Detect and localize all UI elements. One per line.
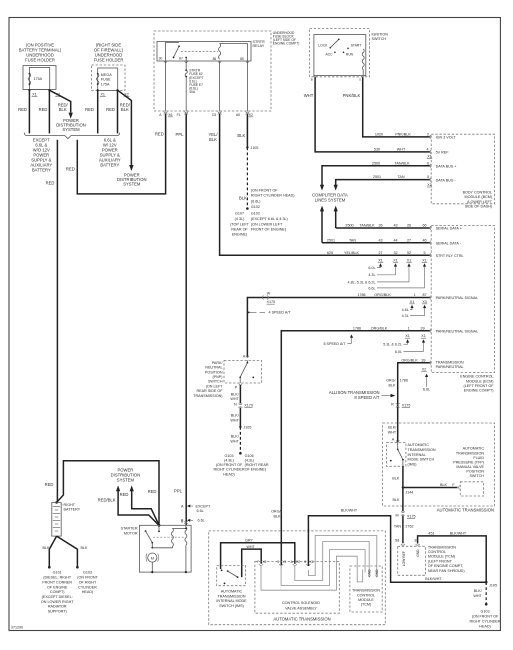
svg-text:BLK/: BLK/ xyxy=(231,414,240,418)
svg-text:BLK: BLK xyxy=(59,107,67,112)
svg-text:PNK/BLK: PNK/BLK xyxy=(343,93,361,98)
svg-text:S: S xyxy=(359,77,361,81)
svg-text:RIGHT: RIGHT xyxy=(64,503,76,507)
wire YEL/BLK fuse block C5 to ECM strt rly ctrl xyxy=(220,114,431,256)
svg-text:(4.8L): (4.8L) xyxy=(224,459,234,463)
svg-text:J105: J105 xyxy=(243,426,251,430)
BCM pin 2 IGN 3 VOLT xyxy=(375,133,456,140)
starter motor M xyxy=(146,553,159,573)
svg-text:BATTERY: BATTERY xyxy=(100,162,119,167)
engine leader 5.3L 6.2L xyxy=(383,339,409,347)
CSVA internal wire from 5 xyxy=(308,536,376,578)
svg-text:X175: X175 xyxy=(407,515,416,519)
engine leader 4.8L 5.3L 6.2L xyxy=(348,263,411,284)
svg-text:GND: GND xyxy=(375,569,379,577)
svg-text:BLK: BLK xyxy=(43,546,51,550)
svg-text:(EXCEPT DIESEL:: (EXCEPT DIESEL: xyxy=(42,595,73,599)
svg-text:G103: G103 xyxy=(83,571,92,575)
svg-text:PRESSURE (TFP): PRESSURE (TFP) xyxy=(453,461,484,465)
wire 625 YEL/BLK strt rly ctrl labels xyxy=(327,251,464,258)
svg-text:HEAD): HEAD) xyxy=(223,472,234,476)
svg-text:FUSE HOLDER: FUSE HOLDER xyxy=(94,58,124,63)
svg-text:TAN: TAN xyxy=(394,525,401,529)
svg-text:1: 1 xyxy=(414,293,416,297)
note 8 speed A/T xyxy=(323,334,353,346)
svg-text:46: 46 xyxy=(422,238,426,242)
svg-text:CONTROL: CONTROL xyxy=(357,593,375,597)
svg-text:(LEFT FRONT OF: (LEFT FRONT OF xyxy=(464,384,495,388)
CSVA internal wire from F xyxy=(261,556,363,590)
svg-text:ENGINE COMPT): ENGINE COMPT) xyxy=(464,389,494,393)
note B 6.6L xyxy=(181,519,205,523)
svg-text:PARK/NEUTRAL: PARK/NEUTRAL xyxy=(436,365,464,369)
svg-text:BLK/: BLK/ xyxy=(388,426,397,430)
svg-text:HEAD): HEAD) xyxy=(479,625,490,629)
svg-text:TRANSMISSION: TRANSMISSION xyxy=(217,594,245,598)
svg-text:BLK/WHT: BLK/WHT xyxy=(450,532,467,536)
svg-text:STRT RLY CTRL: STRT RLY CTRL xyxy=(436,254,464,258)
svg-text:(6.6L): (6.6L) xyxy=(251,200,261,204)
relay coil 86/85 xyxy=(213,44,248,62)
svg-text:44: 44 xyxy=(393,238,397,242)
wire RED starter to PDS xyxy=(120,485,159,525)
svg-text:RED: RED xyxy=(148,489,157,494)
transmission control module TCM box (center) xyxy=(350,566,382,612)
svg-text:RIGHT CYLINDER: RIGHT CYLINDER xyxy=(213,468,244,472)
svg-text:TRANSMISSION: TRANSMISSION xyxy=(408,448,436,452)
svg-text:39: 39 xyxy=(421,326,425,330)
svg-text:OF ENGINE: OF ENGINE xyxy=(47,585,68,589)
svg-text:M: M xyxy=(395,513,398,517)
svg-text:R: R xyxy=(391,402,394,406)
svg-text:B: B xyxy=(311,77,313,81)
wire BLK to TFP switch xyxy=(403,483,460,489)
svg-text:BLK/WHT: BLK/WHT xyxy=(425,577,442,581)
engine leader 6.6L (trans park/neutral) xyxy=(423,374,430,392)
node X2 (left holder) xyxy=(48,89,50,91)
svg-text:SWITCH: SWITCH xyxy=(469,474,484,478)
svg-text:4: 4 xyxy=(426,148,428,152)
junction J105 (center) xyxy=(239,426,241,428)
node X2 (right holder) xyxy=(116,89,118,91)
svg-text:SWITCH: SWITCH xyxy=(372,37,387,41)
svg-text:NEUTRAL: NEUTRAL xyxy=(205,366,222,370)
svg-text:(4.3L): (4.3L) xyxy=(245,459,255,463)
svg-text:2762: 2762 xyxy=(405,525,413,529)
svg-text:AUTOMATIC: AUTOMATIC xyxy=(463,447,485,451)
svg-text:MODULE (ECM): MODULE (ECM) xyxy=(466,379,493,383)
svg-text:3: 3 xyxy=(277,560,279,564)
svg-text:RIGHT CYLINDER: RIGHT CYLINDER xyxy=(469,620,500,624)
svg-text:2500: 2500 xyxy=(345,224,353,228)
svg-text:RED: RED xyxy=(39,107,48,112)
engine leader 4.8L (pnp1) xyxy=(402,305,414,312)
svg-text:4.3L: 4.3L xyxy=(402,314,409,318)
wire BLK fuse block X2 down xyxy=(246,114,248,148)
svg-text:LOW REF: LOW REF xyxy=(402,551,406,566)
connector X179 xyxy=(234,403,253,408)
svg-text:1786: 1786 xyxy=(357,293,365,297)
svg-text:BLK: BLK xyxy=(121,107,129,112)
svg-text:POSITION: POSITION xyxy=(466,470,484,474)
svg-text:MOTOR: MOTOR xyxy=(124,531,138,535)
wire BLK/WHT X179 to J105 xyxy=(230,408,240,427)
wire BLK battery to ground G103 xyxy=(57,536,88,566)
svg-text:STARTER: STARTER xyxy=(121,527,138,531)
svg-text:PPL: PPL xyxy=(174,488,183,493)
svg-text:HEAD): HEAD) xyxy=(82,590,93,594)
svg-text:BLK: BLK xyxy=(389,383,397,387)
svg-text:EXCEPT: EXCEPT xyxy=(196,504,212,508)
fuse 175A (left holder) xyxy=(28,73,42,85)
node starter B junction xyxy=(158,524,161,527)
svg-text:ENGINE CONTROL: ENGINE CONTROL xyxy=(460,375,493,379)
svg-text:(ON FRONT: (ON FRONT xyxy=(77,576,98,580)
ignition switch contacts xyxy=(318,39,361,57)
svg-text:ENGINE): ENGINE) xyxy=(232,233,247,237)
svg-text:6.6L: 6.6L xyxy=(368,286,375,290)
svg-text:BODY CONTROL: BODY CONTROL xyxy=(463,190,492,194)
svg-text:6.0L: 6.0L xyxy=(368,266,375,270)
svg-text:AUTOMATIC: AUTOMATIC xyxy=(221,590,243,594)
svg-text:RED: RED xyxy=(45,482,54,487)
svg-text:INTERNAL MODE: INTERNAL MODE xyxy=(216,599,247,603)
CSVA terminal A X2 xyxy=(291,560,301,566)
wire RED/BLK right to power distribution system xyxy=(118,90,132,165)
svg-text:GND: GND xyxy=(367,569,371,577)
svg-text:CYLINDER: CYLINDER xyxy=(78,585,97,589)
connector X1 labels under strt rly ctrl pins xyxy=(378,258,427,262)
transmission control module TCM box (right) xyxy=(398,545,465,575)
ignition terminals xyxy=(313,75,316,77)
svg-text:X179: X179 xyxy=(244,404,253,408)
svg-text:175A: 175A xyxy=(34,77,43,81)
svg-text:WHT: WHT xyxy=(230,418,239,422)
automatic transmission box (right) xyxy=(383,423,495,513)
svg-text:5: 5 xyxy=(427,175,429,179)
svg-text:(ON LEFT: (ON LEFT xyxy=(206,384,224,388)
svg-text:(EXCEPT 6.6L & 4.3L): (EXCEPT 6.6L & 4.3L) xyxy=(251,217,288,221)
wire ORG/BLK transmission park/neutral xyxy=(386,358,464,442)
svg-text:TAN/BLK: TAN/BLK xyxy=(394,161,410,165)
svg-text:X2: X2 xyxy=(296,560,300,564)
automatic transmission box (bottom center) xyxy=(209,531,386,625)
svg-text:625: 625 xyxy=(327,251,333,255)
note allison transmission 8 speed xyxy=(329,390,395,400)
underhood fuse block box xyxy=(154,31,299,111)
svg-text:BLK: BLK xyxy=(209,137,217,142)
svg-text:RIGHT CYLINDER HEAD): RIGHT CYLINDER HEAD) xyxy=(251,193,295,197)
svg-text:BLK: BLK xyxy=(239,196,247,201)
svg-text:(ON FRONT OF: (ON FRONT OF xyxy=(251,189,278,193)
wire RED brace to battery xyxy=(56,140,58,502)
svg-text:4 SPEED A/T: 4 SPEED A/T xyxy=(269,311,292,315)
wire WHT ignition to BCM 5V REF xyxy=(315,77,430,152)
svg-text:X2: X2 xyxy=(249,113,253,117)
CSVA terminal F X2 xyxy=(257,560,267,566)
svg-text:FUSE: FUSE xyxy=(101,78,111,82)
svg-text:(ON FRONT OF: (ON FRONT OF xyxy=(216,463,243,467)
svg-text:TAN: TAN xyxy=(349,238,356,242)
svg-text:1786: 1786 xyxy=(353,326,361,330)
svg-text:(IMS): (IMS) xyxy=(408,463,417,467)
svg-text:530: 530 xyxy=(374,148,380,152)
connector X175 (M) xyxy=(395,512,415,519)
svg-text:8 SPEED A/T: 8 SPEED A/T xyxy=(354,395,380,400)
svg-text:WHT: WHT xyxy=(304,93,314,98)
svg-text:X1: X1 xyxy=(427,155,432,159)
svg-text:6: 6 xyxy=(427,161,429,165)
svg-text:ORG/BLK: ORG/BLK xyxy=(374,293,391,297)
svg-text:J105: J105 xyxy=(489,583,497,587)
svg-text:87: 87 xyxy=(423,293,427,297)
svg-text:WHT: WHT xyxy=(397,148,406,152)
fuse block connector row pins A/X6 F1 C5 A5/X2 xyxy=(159,112,253,117)
svg-text:WHT: WHT xyxy=(230,439,239,443)
svg-text:DATA BUS -: DATA BUS - xyxy=(436,178,457,182)
svg-text:BLK: BLK xyxy=(237,133,245,138)
svg-text:27: 27 xyxy=(378,251,382,255)
svg-text:6.0L: 6.0L xyxy=(395,350,402,354)
svg-text:CONTROL: CONTROL xyxy=(428,550,446,554)
svg-text:FLUID: FLUID xyxy=(473,456,484,460)
svg-text:4.8L, 5.3L & 6.2L: 4.8L, 5.3L & 6.2L xyxy=(348,280,376,284)
svg-text:X1: X1 xyxy=(310,560,314,564)
svg-text:LINES SYSTEM: LINES SYSTEM xyxy=(315,198,346,203)
branch label except 6.6L xyxy=(30,137,52,172)
svg-text:52: 52 xyxy=(407,251,411,255)
engine leader 6.0L (8 speed) xyxy=(395,339,425,354)
svg-text:PARK/: PARK/ xyxy=(212,361,224,365)
starter solenoid contact xyxy=(145,525,160,548)
svg-text:X6: X6 xyxy=(168,113,172,117)
wire 2500 TAN/BLK data bus + xyxy=(320,161,457,190)
svg-text:X2: X2 xyxy=(422,367,427,371)
starter solenoid coils xyxy=(152,525,187,573)
svg-text:26: 26 xyxy=(407,224,411,228)
node X1 (left holder) xyxy=(28,89,30,91)
mega fuse 175A (right holder) xyxy=(97,73,113,87)
svg-text:30: 30 xyxy=(159,56,163,60)
wire BLK dashed to ground xyxy=(246,148,248,209)
svg-text:X1: X1 xyxy=(32,92,37,96)
svg-text:G102: G102 xyxy=(251,205,260,209)
CSVA terminal 3 X1 xyxy=(277,560,286,566)
TFP switch box xyxy=(460,482,483,496)
svg-text:BLK: BLK xyxy=(392,476,400,480)
svg-text:6.6L: 6.6L xyxy=(423,388,430,392)
svg-text:IGN 3 VOLT: IGN 3 VOLT xyxy=(436,136,457,140)
svg-text:TAN/BLK: TAN/BLK xyxy=(359,224,375,228)
svg-text:X3: X3 xyxy=(422,300,427,304)
svg-text:WHT: WHT xyxy=(246,545,255,549)
svg-text:BLK: BLK xyxy=(440,483,448,487)
svg-text:39: 39 xyxy=(421,358,425,362)
svg-text:RELAY: RELAY xyxy=(253,44,265,48)
engine leader 4.3L xyxy=(368,263,397,277)
svg-text:NEAR FAN SHROUD): NEAR FAN SHROUD) xyxy=(428,569,465,573)
svg-text:SYSTEM: SYSTEM xyxy=(62,127,80,132)
engine leader 4.3L (pnp1) xyxy=(402,305,427,318)
svg-text:G101: G101 xyxy=(53,571,62,575)
wire 1786 ORG/BLK park/neutral signal (8 speed) xyxy=(271,326,478,565)
svg-text:BATTERY: BATTERY xyxy=(64,508,81,512)
svg-text:OF ENGINE COMPT,: OF ENGINE COMPT, xyxy=(428,564,463,568)
svg-text:5: 5 xyxy=(423,251,425,255)
starter relay K1 xyxy=(157,40,265,61)
svg-text:X1: X1 xyxy=(282,560,286,564)
junction J105 (top) xyxy=(246,146,248,148)
junction J105 (bottom right) xyxy=(485,581,488,584)
svg-text:8: 8 xyxy=(414,538,416,542)
svg-text:STRTR: STRTR xyxy=(253,40,266,44)
svg-text:COMPT): COMPT) xyxy=(50,590,65,594)
wire RED/BLK to power distribution system xyxy=(49,90,70,112)
svg-text:REAR OF: REAR OF xyxy=(231,228,248,232)
svg-text:2501: 2501 xyxy=(327,238,335,242)
relay actuation dashed link xyxy=(181,51,218,53)
note 4 speed A/T xyxy=(248,311,291,315)
svg-text:GND: GND xyxy=(416,549,420,557)
svg-text:SYSTEM: SYSTEM xyxy=(123,181,141,186)
svg-text:40A: 40A xyxy=(189,90,196,94)
svg-text:X1: X1 xyxy=(405,334,410,338)
svg-text:BLK/WHT: BLK/WHT xyxy=(341,509,358,513)
wire 2501 TAN serial data - xyxy=(322,238,462,245)
engine leader 6.6L xyxy=(368,263,426,290)
svg-text:1786: 1786 xyxy=(400,379,408,383)
right battery xyxy=(52,503,81,537)
ground G102 xyxy=(246,207,249,210)
svg-text:1: 1 xyxy=(408,326,410,330)
wire 451 BLK/WHT TCM gnd to J105 xyxy=(414,532,486,583)
ground G103 (bottom right) xyxy=(469,603,500,629)
svg-text:4.8L: 4.8L xyxy=(402,308,409,312)
svg-text:G107: G107 xyxy=(235,211,244,215)
wire RED from X2 down to brace xyxy=(48,90,50,133)
svg-text:BLK/: BLK/ xyxy=(231,392,240,396)
svg-text:6.6L: 6.6L xyxy=(197,509,204,513)
wire RED from right X1 down to brace xyxy=(97,90,99,133)
wire RED/BLK starter to PDS xyxy=(98,485,159,525)
svg-text:G106: G106 xyxy=(245,454,254,458)
wire GRY IMS to terminal A xyxy=(221,538,295,569)
svg-text:A5: A5 xyxy=(236,113,240,117)
svg-text:INTERNAL: INTERNAL xyxy=(408,453,426,457)
wire RED from X1 down to brace xyxy=(28,90,30,133)
node power distribution system (starter) xyxy=(111,468,141,483)
svg-text:GRY: GRY xyxy=(245,538,253,542)
svg-text:DATA BUS +: DATA BUS + xyxy=(436,164,457,168)
svg-text:BLK/: BLK/ xyxy=(231,435,240,439)
svg-text:W: W xyxy=(267,292,271,296)
svg-text:MODULE (BCM): MODULE (BCM) xyxy=(465,195,492,199)
svg-text:SERIAL DATA -: SERIAL DATA - xyxy=(436,241,462,245)
svg-text:REAR SIDE OF: REAR SIDE OF xyxy=(196,389,223,393)
wire TAN 2762 to TCM pin 58 xyxy=(394,516,414,546)
note A except 6.6L xyxy=(181,504,211,513)
svg-text:1020: 1020 xyxy=(375,133,383,137)
svg-text:BLK: BLK xyxy=(274,514,282,518)
wire PPL fuse block F1 to starter S xyxy=(185,114,187,526)
wire 2501 TAN data bus - xyxy=(334,175,457,190)
svg-text:X1: X1 xyxy=(378,258,383,262)
svg-text:43: 43 xyxy=(393,224,397,228)
automatic transmission internal mode switch IMS (center) xyxy=(216,565,247,607)
svg-text:27: 27 xyxy=(407,238,411,242)
starter actuation dashed link xyxy=(153,536,185,538)
automatic transmission fluid pressure TFP manual valve position switch label xyxy=(453,447,484,479)
svg-text:6.6L: 6.6L xyxy=(198,519,205,523)
svg-text:TRANSMISSION: TRANSMISSION xyxy=(436,360,464,364)
ground G103/G106 (center) xyxy=(213,452,268,476)
svg-text:26: 26 xyxy=(378,224,382,228)
svg-text:FUSE HOLDER: FUSE HOLDER xyxy=(25,58,55,63)
wire 1786 ORG/BLK park/neutral signal (4 speed) xyxy=(247,293,478,357)
svg-text:2500: 2500 xyxy=(372,161,380,165)
svg-text:85: 85 xyxy=(240,57,244,61)
svg-text:X1: X1 xyxy=(422,258,427,262)
wire BLK J144 down xyxy=(393,488,403,512)
svg-text:PPL: PPL xyxy=(176,132,185,137)
svg-text:RED: RED xyxy=(18,107,27,112)
automatic transmission internal mode switch IMS (right) xyxy=(387,442,436,466)
svg-text:(TOP LEFT: (TOP LEFT xyxy=(230,223,249,227)
wire relay 85 to terminal X2 xyxy=(246,61,248,112)
svg-text:SIDE OF DASH): SIDE OF DASH) xyxy=(465,205,492,209)
starter terminal S xyxy=(181,519,188,524)
wire RED battery to starter B xyxy=(57,461,159,526)
wire WHT IMS to terminal F xyxy=(242,545,262,577)
engine leader 6.0L xyxy=(368,263,382,270)
engine control module (ECM) box xyxy=(431,226,494,393)
svg-text:4.3L: 4.3L xyxy=(368,273,375,277)
svg-text:F: F xyxy=(257,560,259,564)
svg-text:5: 5 xyxy=(304,560,306,564)
svg-text:ORG/: ORG/ xyxy=(271,510,281,514)
svg-text:2501: 2501 xyxy=(373,175,381,179)
svg-text:RED: RED xyxy=(66,166,75,171)
svg-text:VALVE ASSEMBLY: VALVE ASSEMBLY xyxy=(285,607,317,611)
wire BLK/WHT PNP to X179 xyxy=(230,385,240,404)
ignition switch box xyxy=(310,29,389,77)
svg-text:ORG/BLK: ORG/BLK xyxy=(401,358,418,362)
wire BLK from IMS to J144 xyxy=(392,466,403,487)
svg-text:F1: F1 xyxy=(177,113,181,117)
svg-text:G102: G102 xyxy=(251,211,260,215)
svg-text:OF ENGINE): OF ENGINE) xyxy=(245,468,267,472)
svg-text:RED: RED xyxy=(120,492,129,497)
park/neutral position PNP switch xyxy=(193,355,261,398)
svg-text:ORG/BLK: ORG/BLK xyxy=(371,326,388,330)
svg-text:RUN: RUN xyxy=(346,53,354,57)
svg-text:(PNP): (PNP) xyxy=(212,375,222,379)
CSVA internal wire from A xyxy=(295,542,369,581)
svg-text:WHT: WHT xyxy=(473,594,482,598)
svg-text:BLK: BLK xyxy=(81,546,89,550)
svg-text:LOCK: LOCK xyxy=(318,44,328,48)
svg-text:87: 87 xyxy=(179,56,183,60)
svg-text:RADIATOR: RADIATOR xyxy=(48,605,67,609)
svg-text:J105: J105 xyxy=(250,146,258,150)
svg-text:32: 32 xyxy=(393,251,397,255)
relay contact 30/87 xyxy=(159,42,187,60)
body control module (BCM) box xyxy=(431,134,494,208)
connector X175 (R) xyxy=(391,402,410,407)
svg-text:451: 451 xyxy=(428,532,434,536)
BCM pin 4 5V REF xyxy=(374,148,449,159)
svg-text:ON LOWER RIGHT: ON LOWER RIGHT xyxy=(41,600,74,604)
